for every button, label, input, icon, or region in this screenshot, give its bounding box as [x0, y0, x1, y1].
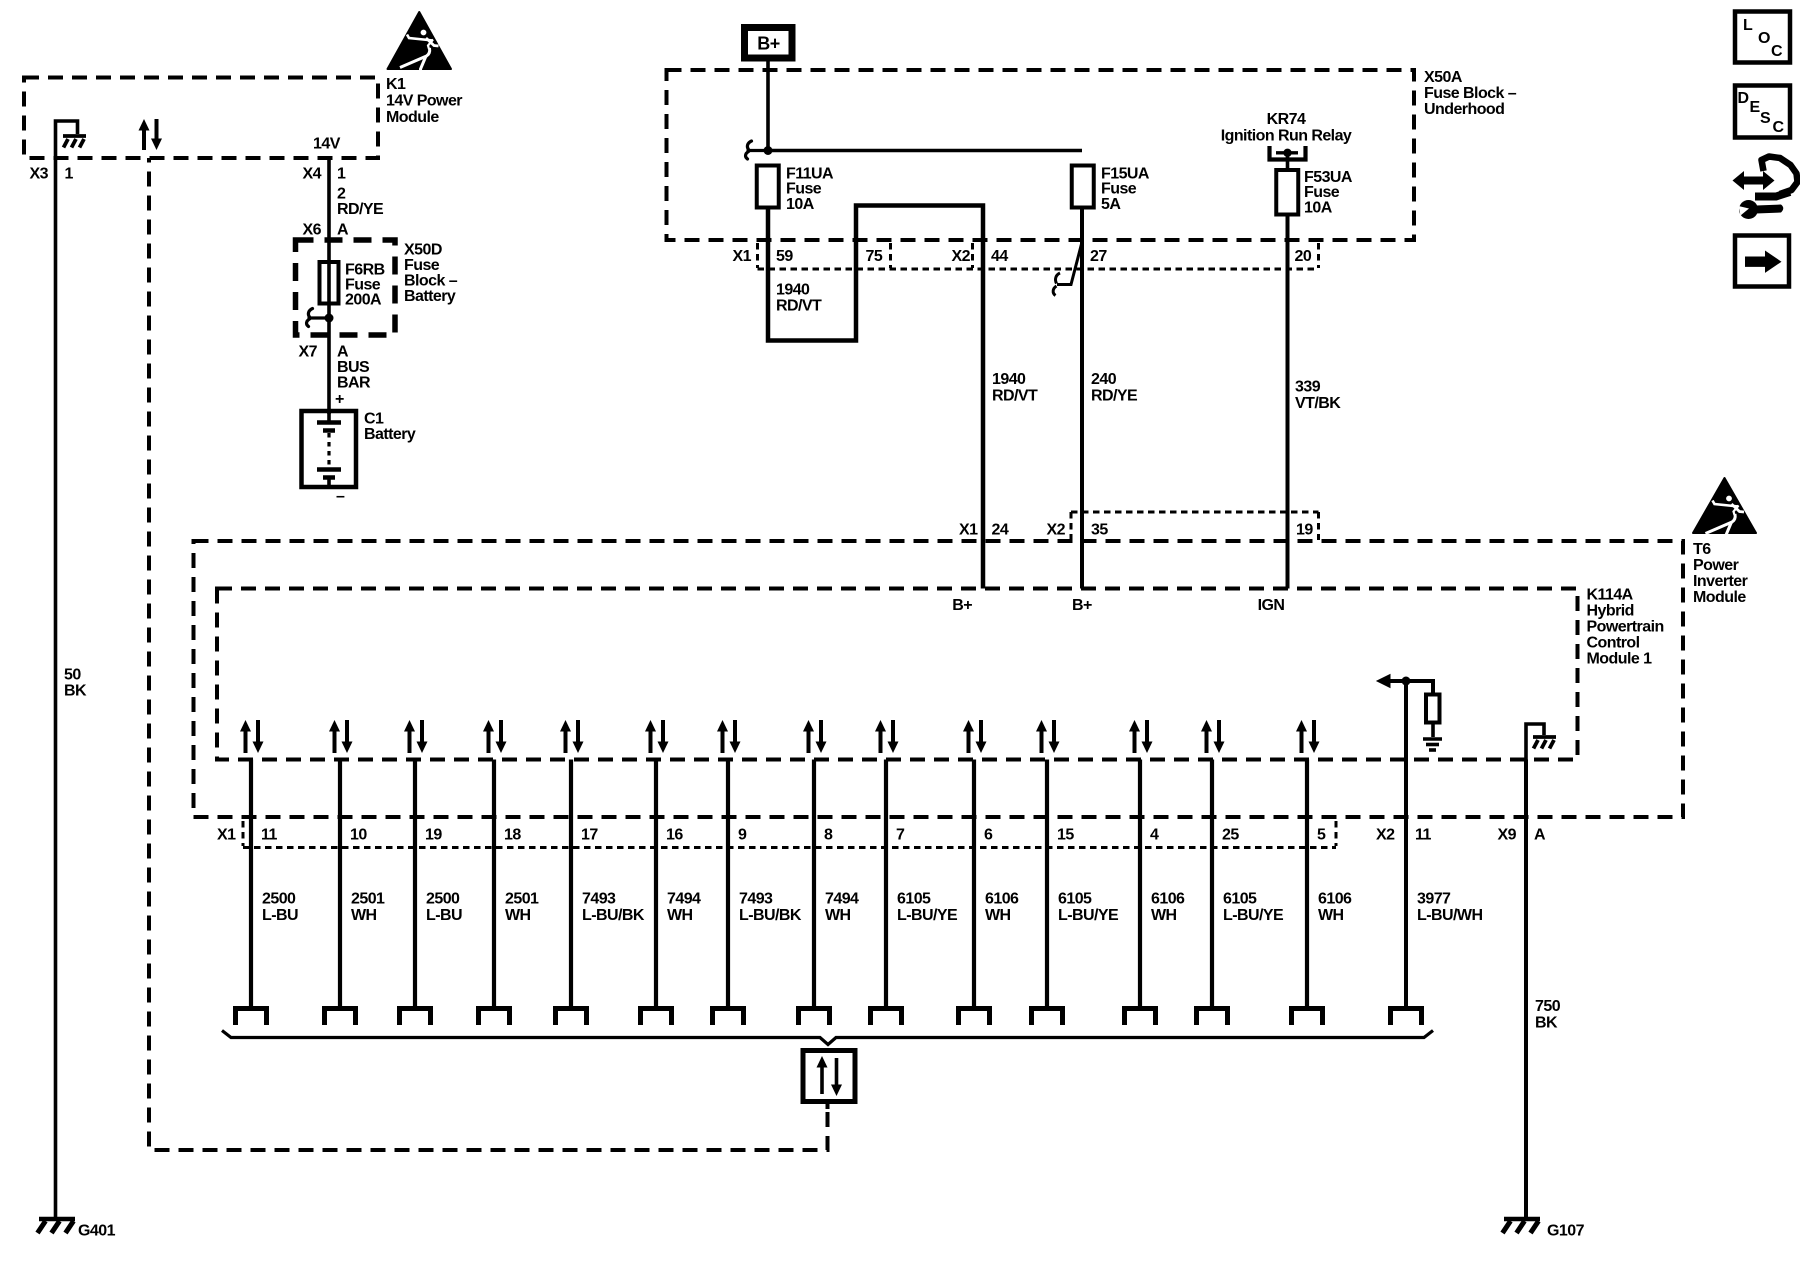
svg-text:Module: Module — [386, 109, 439, 126]
svg-text:240: 240 — [1091, 371, 1117, 388]
module K1 14V Power Module dashed box — [24, 78, 378, 159]
svg-text:WH: WH — [1318, 907, 1344, 924]
fuse F11UA 10A — [757, 166, 779, 208]
svg-text:5: 5 — [1317, 827, 1326, 844]
dashed drain return to K1 — [149, 158, 828, 1150]
twisted-pair arrows (wire 6105 pin 7) — [875, 720, 899, 753]
connector terminal (wire 2500 pin 19) — [400, 1009, 431, 1026]
svg-text:L-BU: L-BU — [262, 907, 298, 924]
relay KR74 Ignition Run Relay — [1270, 146, 1306, 171]
svg-text:BK: BK — [64, 683, 87, 700]
svg-text:2500: 2500 — [262, 891, 296, 908]
ground (chassis, inside K114A) — [1526, 724, 1556, 760]
connector terminal (wire 7493 pin 17) — [556, 1009, 587, 1026]
svg-text:75: 75 — [866, 248, 883, 265]
svg-text:44: 44 — [991, 248, 1008, 265]
twisted-pair arrows (wire 6106 pin 6) — [963, 720, 987, 753]
svg-text:16: 16 — [666, 827, 683, 844]
svg-text:KR74: KR74 — [1267, 111, 1306, 128]
svg-text:B+: B+ — [1072, 597, 1092, 614]
twisted/shielded cable symbol box — [803, 1051, 855, 1110]
svg-text:X2: X2 — [1376, 827, 1395, 844]
shield/drain line across terminals — [222, 1031, 1433, 1045]
svg-text:6105: 6105 — [1058, 891, 1092, 908]
svg-text:750: 750 — [1535, 998, 1561, 1015]
svg-text:19: 19 — [1296, 522, 1313, 539]
svg-text:L-BU/YE: L-BU/YE — [897, 907, 958, 924]
svg-text:35: 35 — [1091, 522, 1108, 539]
svg-text:6106: 6106 — [985, 891, 1019, 908]
svg-text:X2: X2 — [952, 248, 971, 265]
svg-text:8: 8 — [824, 827, 833, 844]
svg-text:6105: 6105 — [897, 891, 931, 908]
svg-text:X50D: X50D — [404, 242, 442, 259]
svg-text:S: S — [1760, 110, 1771, 127]
twisted-pair arrows (wire 2500 pin 19) — [404, 720, 428, 753]
svg-text:A: A — [337, 222, 349, 239]
svg-text:2501: 2501 — [351, 891, 385, 908]
svg-text:27: 27 — [1090, 248, 1107, 265]
connector terminal (wire 6105 pin 25) — [1197, 1009, 1228, 1026]
svg-text:X1: X1 — [733, 248, 752, 265]
wire 3977 L-BU/WH (junction to K114A X2-11) — [1404, 681, 1408, 1009]
twisted-pair arrows (wire 7493 pin 17) — [560, 720, 584, 753]
svg-text:L-BU/WH: L-BU/WH — [1417, 907, 1482, 924]
connector terminal (wire 6106 pin 4) — [1125, 1009, 1156, 1026]
svg-text:Battery: Battery — [404, 288, 456, 305]
wire 2500 L-BU (K114A X1-19) — [413, 760, 417, 1009]
wire 2 RD/YE (K1 X4-1 to battery) — [327, 158, 331, 414]
connector terminal (wire 6105 pin 7) — [871, 1009, 902, 1026]
svg-text:RD/YE: RD/YE — [1091, 388, 1138, 405]
wire 1940 RD/VT (F11UA pin59 loop to pin44, down to K114A X1-24) — [768, 206, 983, 589]
splice hook at B+ junction — [746, 141, 768, 159]
svg-text:X4: X4 — [303, 166, 322, 183]
wire 50 BK (K1 X3-1 to G401) — [54, 158, 58, 1218]
svg-text:10: 10 — [350, 827, 367, 844]
svg-text:X3: X3 — [30, 166, 49, 183]
svg-text:WH: WH — [667, 907, 693, 924]
ground G401 — [38, 1219, 76, 1233]
battery C1 — [302, 411, 357, 487]
svg-text:+: + — [335, 391, 344, 408]
wire B+ feed into fuse block — [766, 58, 770, 151]
wire 7493 L-BU/BK (K114A X1-17) — [569, 760, 573, 1009]
svg-text:6105: 6105 — [1223, 891, 1257, 908]
svg-text:15: 15 — [1057, 827, 1074, 844]
svg-text:A: A — [1534, 827, 1546, 844]
wire 339 VT/BK (F53UA pin20 to K114A X2-19) — [1286, 215, 1290, 589]
connector terminal (wire 7494 pin 8) — [799, 1009, 830, 1026]
svg-text:7: 7 — [896, 827, 905, 844]
node B+ junction — [764, 146, 773, 155]
svg-text:Underhood: Underhood — [1424, 101, 1504, 118]
svg-text:X2: X2 — [1047, 522, 1066, 539]
svg-text:L-BU/BK: L-BU/BK — [582, 907, 645, 924]
svg-text:17: 17 — [581, 827, 598, 844]
twisted-pair arrows (wire 7494 pin 16) — [645, 720, 669, 753]
connector terminal (wire 6106 pin 5) — [1292, 1009, 1323, 1026]
icon forward arrow box — [1735, 236, 1789, 287]
wire 240 RD/YE (F15UA pin27 to K114A X2-35) — [1080, 207, 1084, 589]
svg-text:X9: X9 — [1498, 827, 1517, 844]
svg-text:1940: 1940 — [992, 371, 1026, 388]
svg-text:1940: 1940 — [776, 282, 810, 299]
node junction (3977 wire) — [1402, 677, 1411, 686]
svg-text:VT/BK: VT/BK — [1295, 395, 1341, 412]
svg-text:14V: 14V — [313, 136, 341, 153]
svg-text:50: 50 — [64, 667, 81, 684]
svg-text:339: 339 — [1295, 379, 1321, 396]
twisted-pair arrows (wire 6105 pin 25) — [1201, 720, 1225, 753]
wire 6106 WH (K114A X1-4) — [1138, 760, 1142, 1009]
svg-text:K114A: K114A — [1587, 587, 1634, 604]
twisted-pair arrows (inside K1) — [139, 119, 163, 150]
svg-text:X6: X6 — [303, 222, 322, 239]
svg-text:B+: B+ — [757, 34, 779, 54]
wire 7494 WH (K114A X1-16) — [654, 760, 658, 1009]
svg-text:200A: 200A — [345, 292, 382, 309]
connector X1 strip of K114A bottom (dotted) — [243, 821, 1336, 848]
svg-text:WH: WH — [1151, 907, 1177, 924]
svg-text:Fuse Block –: Fuse Block – — [1424, 85, 1517, 102]
wire 6106 WH (K114A X1-6) — [972, 760, 976, 1009]
connector terminal (wire 3977) — [1391, 1009, 1422, 1026]
svg-text:X7: X7 — [299, 344, 318, 361]
ground G107 — [1503, 1219, 1541, 1233]
wire bus to F15UA — [768, 149, 1082, 153]
svg-text:X1: X1 — [217, 827, 236, 844]
wire 750 BK (K114A X9-A to G107) — [1524, 760, 1528, 1219]
svg-text:11: 11 — [1415, 827, 1431, 844]
svg-text:L-BU/BK: L-BU/BK — [739, 907, 802, 924]
svg-text:C: C — [1773, 119, 1785, 136]
svg-text:11: 11 — [261, 827, 277, 844]
splice hook at pin 27 — [1053, 244, 1081, 296]
svg-text:6: 6 — [984, 827, 993, 844]
twisted-pair arrows (wire 2501 pin 18) — [483, 720, 507, 753]
svg-text:1: 1 — [337, 166, 346, 183]
svg-text:C1: C1 — [364, 411, 384, 428]
svg-text:L-BU/YE: L-BU/YE — [1058, 907, 1119, 924]
svg-text:L-BU/YE: L-BU/YE — [1223, 907, 1284, 924]
svg-text:WH: WH — [825, 907, 851, 924]
svg-text:C: C — [1771, 43, 1783, 60]
svg-text:2500: 2500 — [426, 891, 460, 908]
twisted-pair arrows (wire 7493 pin 9) — [717, 720, 741, 753]
svg-text:59: 59 — [776, 248, 793, 265]
svg-text:RD/VT: RD/VT — [992, 388, 1038, 405]
svg-text:Powertrain: Powertrain — [1587, 619, 1664, 636]
fuse F53UA 10A — [1276, 170, 1298, 215]
fuse F15UA 5A — [1072, 166, 1094, 208]
fuse F6RB 200A — [320, 262, 339, 304]
twisted-pair arrows (wire 6106 pin 4) — [1129, 720, 1153, 753]
off-page arrow, resistor and earth ground inside K114A — [1377, 675, 1442, 751]
svg-text:Inverter: Inverter — [1693, 573, 1748, 590]
svg-text:WH: WH — [985, 907, 1011, 924]
wire 6105 L-BU/YE (K114A X1-25) — [1210, 760, 1214, 1009]
twisted-pair arrows (wire 7494 pin 8) — [803, 720, 827, 753]
twisted-pair arrows (wire 2500 pin 11) — [240, 720, 264, 753]
twisted-pair arrows (wire 6105 pin 15) — [1036, 720, 1060, 753]
connector terminal (wire 7494 pin 16) — [641, 1009, 672, 1026]
svg-text:10A: 10A — [786, 196, 815, 213]
svg-text:RD/YE: RD/YE — [337, 201, 384, 218]
svg-text:IGN: IGN — [1258, 597, 1285, 614]
fuse block X50A dashed box — [667, 70, 1415, 240]
svg-text:RD/VT: RD/VT — [776, 298, 822, 315]
svg-text:4: 4 — [1150, 827, 1159, 844]
svg-text:G401: G401 — [78, 1223, 116, 1240]
svg-text:7493: 7493 — [739, 891, 773, 908]
svg-text:6106: 6106 — [1151, 891, 1185, 908]
svg-text:A: A — [337, 344, 349, 361]
wire 2501 WH (K114A X1-18) — [492, 760, 496, 1009]
svg-text:1: 1 — [65, 166, 74, 183]
wire 2501 WH (K114A X1-10) — [338, 760, 342, 1009]
svg-text:Control: Control — [1587, 635, 1640, 652]
module K114A Hybrid Powertrain Control Module 1 dashed box — [217, 589, 1578, 760]
twisted-pair arrows (wire 6106 pin 5) — [1296, 720, 1320, 753]
svg-text:6106: 6106 — [1318, 891, 1352, 908]
svg-text:Module 1: Module 1 — [1587, 651, 1653, 668]
wire 6105 L-BU/YE (K114A X1-7) — [884, 760, 888, 1009]
svg-text:BAR: BAR — [337, 375, 371, 392]
power terminal B+ — [745, 28, 793, 59]
ground (chassis, inside K1) — [56, 121, 87, 158]
svg-text:14V Power: 14V Power — [386, 93, 462, 110]
svg-text:Power: Power — [1693, 557, 1739, 574]
icon wiring repair (arrow, mitten, wrench) — [1733, 157, 1798, 220]
svg-text:Hybrid: Hybrid — [1587, 603, 1634, 620]
svg-text:BUS: BUS — [337, 359, 370, 376]
svg-text:Module: Module — [1693, 589, 1746, 606]
svg-text:WH: WH — [351, 907, 377, 924]
svg-text:WH: WH — [505, 907, 531, 924]
svg-text:10A: 10A — [1304, 199, 1333, 216]
svg-text:20: 20 — [1295, 248, 1312, 265]
svg-text:X50A: X50A — [1424, 69, 1463, 86]
svg-text:Fuse: Fuse — [404, 257, 440, 274]
wire 2500 L-BU (K114A X1-11) — [249, 760, 253, 1009]
svg-text:Block –: Block – — [404, 273, 458, 290]
svg-text:24: 24 — [992, 522, 1009, 539]
svg-text:L: L — [1743, 17, 1753, 34]
twisted-pair arrows (wire 2501 pin 10) — [329, 720, 353, 753]
svg-text:D: D — [1738, 90, 1749, 107]
connector terminal (wire 2501 pin 10) — [325, 1009, 356, 1026]
wire 7494 WH (K114A X1-8) — [812, 760, 816, 1009]
wire 6105 L-BU/YE (K114A X1-15) — [1045, 760, 1049, 1009]
connector terminal (wire 6106 pin 6) — [959, 1009, 990, 1026]
svg-text:9: 9 — [738, 827, 747, 844]
connector terminal (wire 6105 pin 15) — [1032, 1009, 1063, 1026]
fuse block X50D dashed box — [296, 240, 396, 335]
svg-text:K1: K1 — [386, 76, 406, 93]
svg-text:E: E — [1750, 99, 1761, 116]
splice hook (below F6RB) — [307, 309, 334, 327]
wire 7493 L-BU/BK (K114A X1-9) — [726, 760, 730, 1009]
svg-text:BK: BK — [1535, 1015, 1558, 1032]
svg-text:7494: 7494 — [667, 891, 701, 908]
svg-text:18: 18 — [504, 827, 521, 844]
connector terminal (wire 2500 pin 11) — [236, 1009, 267, 1026]
module T6 Power Inverter Module dashed box — [194, 541, 1684, 817]
wire 6106 WH (K114A X1-5) — [1305, 760, 1309, 1009]
svg-text:2501: 2501 — [505, 891, 539, 908]
svg-text:Ignition Run Relay: Ignition Run Relay — [1221, 128, 1352, 145]
connector X1/X2 strip of X50A (dotted) — [758, 243, 1319, 269]
svg-text:X1: X1 — [959, 522, 978, 539]
svg-text:7494: 7494 — [825, 891, 859, 908]
svg-text:L-BU: L-BU — [426, 907, 462, 924]
connector terminal (wire 7493 pin 9) — [713, 1009, 744, 1026]
icon LOC box — [1735, 12, 1790, 63]
warning triangle (K1) — [388, 12, 452, 79]
connector terminal (wire 2501 pin 18) — [479, 1009, 510, 1026]
svg-text:Battery: Battery — [364, 426, 416, 443]
connector X1/X2 strip of K114A top (dotted) — [1071, 512, 1319, 540]
svg-text:19: 19 — [425, 827, 442, 844]
icon DESC box — [1735, 86, 1790, 138]
svg-text:3977: 3977 — [1417, 891, 1451, 908]
svg-text:7493: 7493 — [582, 891, 616, 908]
svg-text:T6: T6 — [1693, 541, 1711, 558]
svg-text:2: 2 — [337, 186, 346, 203]
svg-text:B+: B+ — [952, 597, 972, 614]
svg-text:25: 25 — [1222, 827, 1239, 844]
svg-text:G107: G107 — [1547, 1223, 1585, 1240]
svg-text:O: O — [1758, 30, 1770, 47]
warning triangle (T6) — [1693, 478, 1756, 545]
svg-text:5A: 5A — [1101, 196, 1121, 213]
svg-text:–: – — [336, 488, 345, 505]
